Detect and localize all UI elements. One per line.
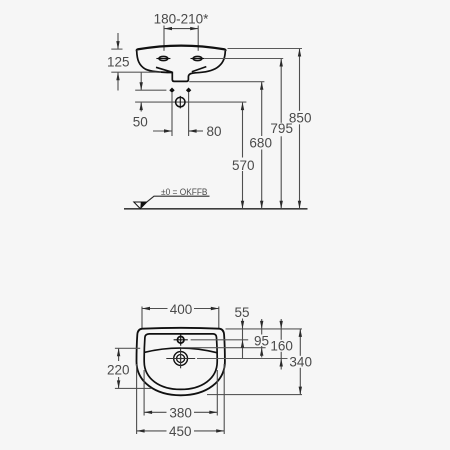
80 ext line right [188, 93, 190, 136]
svg-text:80: 80 [207, 124, 222, 139]
570 vertical [242, 102, 244, 208]
680 vertical [261, 82, 263, 209]
380 dim line [144, 411, 217, 413]
bowl top arc [145, 348, 217, 353]
anchor diamond right [186, 88, 191, 93]
leader hole level to 795 [205, 58, 283, 60]
55 vertical [242, 319, 244, 359]
level symbol slant + underline [147, 196, 210, 202]
160 vertical [280, 319, 282, 370]
dim 125 lower tick / bowl bottom line [111, 71, 161, 73]
drain circle front [176, 97, 185, 106]
tap hole right [193, 56, 202, 60]
anchor diamond left [169, 88, 174, 93]
svg-text:380: 380 [169, 405, 192, 420]
svg-text:180-210*: 180-210* [154, 12, 210, 27]
svg-text:±0 = OKFFB: ±0 = OKFFB [161, 187, 208, 197]
basin bowl outer profile [137, 51, 226, 82]
95 vertical [261, 319, 263, 357]
svg-text:95: 95 [254, 333, 269, 348]
80 ext line left [171, 93, 173, 136]
340 vertical [299, 329, 301, 395]
dim 125 arrow down [117, 33, 119, 49]
450 dim line [137, 430, 225, 432]
level symbol triangle [134, 202, 147, 209]
front edge leader [207, 394, 302, 396]
svg-text:570: 570 [232, 158, 255, 173]
bowl apex leader (95) [181, 347, 266, 349]
220 arrows [118, 349, 120, 361]
anchor line (diamond level) [135, 89, 166, 91]
svg-text:55: 55 [234, 305, 249, 320]
arrow right [190, 27, 198, 30]
text 95 [253, 335, 270, 347]
ext line left tap [163, 26, 165, 51]
svg-text:220: 220 [107, 362, 130, 377]
drain level line + 570 leader [135, 101, 246, 103]
outer outline [137, 328, 225, 396]
arrow left [164, 27, 172, 30]
floor line [124, 208, 308, 210]
tap leader [191, 339, 249, 341]
220 ticks [115, 347, 140, 349]
rear edge leader [226, 328, 303, 330]
drain plan [174, 352, 188, 366]
dim 50 lower up arrow [140, 102, 142, 111]
leader outlet bottom to 680 [189, 81, 264, 83]
inner bowl slant left [156, 67, 172, 72]
dim 125 upper tick [111, 48, 122, 50]
label gaps [231, 158, 257, 172]
850 vertical [299, 49, 301, 209]
ext line right tap [197, 26, 199, 51]
450 ext lines [136, 364, 138, 434]
dim 50 shaft upper with down arrow [140, 72, 142, 90]
svg-text:125: 125 [107, 54, 130, 69]
svg-text:680: 680 [249, 136, 272, 151]
80 dim arrows [153, 130, 172, 132]
inner rim + bowl outline [144, 334, 217, 390]
dim 125 arrow up [117, 73, 119, 91]
svg-text:450: 450 [169, 424, 192, 439]
400 ext lines [141, 307, 143, 329]
svg-text:50: 50 [133, 115, 148, 130]
dim line 180-210 [164, 28, 198, 30]
svg-text:340: 340 [289, 355, 312, 370]
basin rim top edge [137, 46, 226, 51]
svg-text:850: 850 [289, 110, 312, 125]
795 vertical [280, 59, 282, 209]
svg-text:160: 160 [270, 339, 293, 354]
svg-text:400: 400 [170, 302, 193, 317]
tap hole left [159, 56, 168, 60]
tap hole plan [177, 337, 184, 344]
380 ext lines [143, 370, 145, 416]
inner bowl slant right [192, 67, 207, 72]
leader rim level to 850 [228, 48, 303, 50]
drain leader [197, 358, 289, 360]
400 dim line [142, 308, 219, 310]
